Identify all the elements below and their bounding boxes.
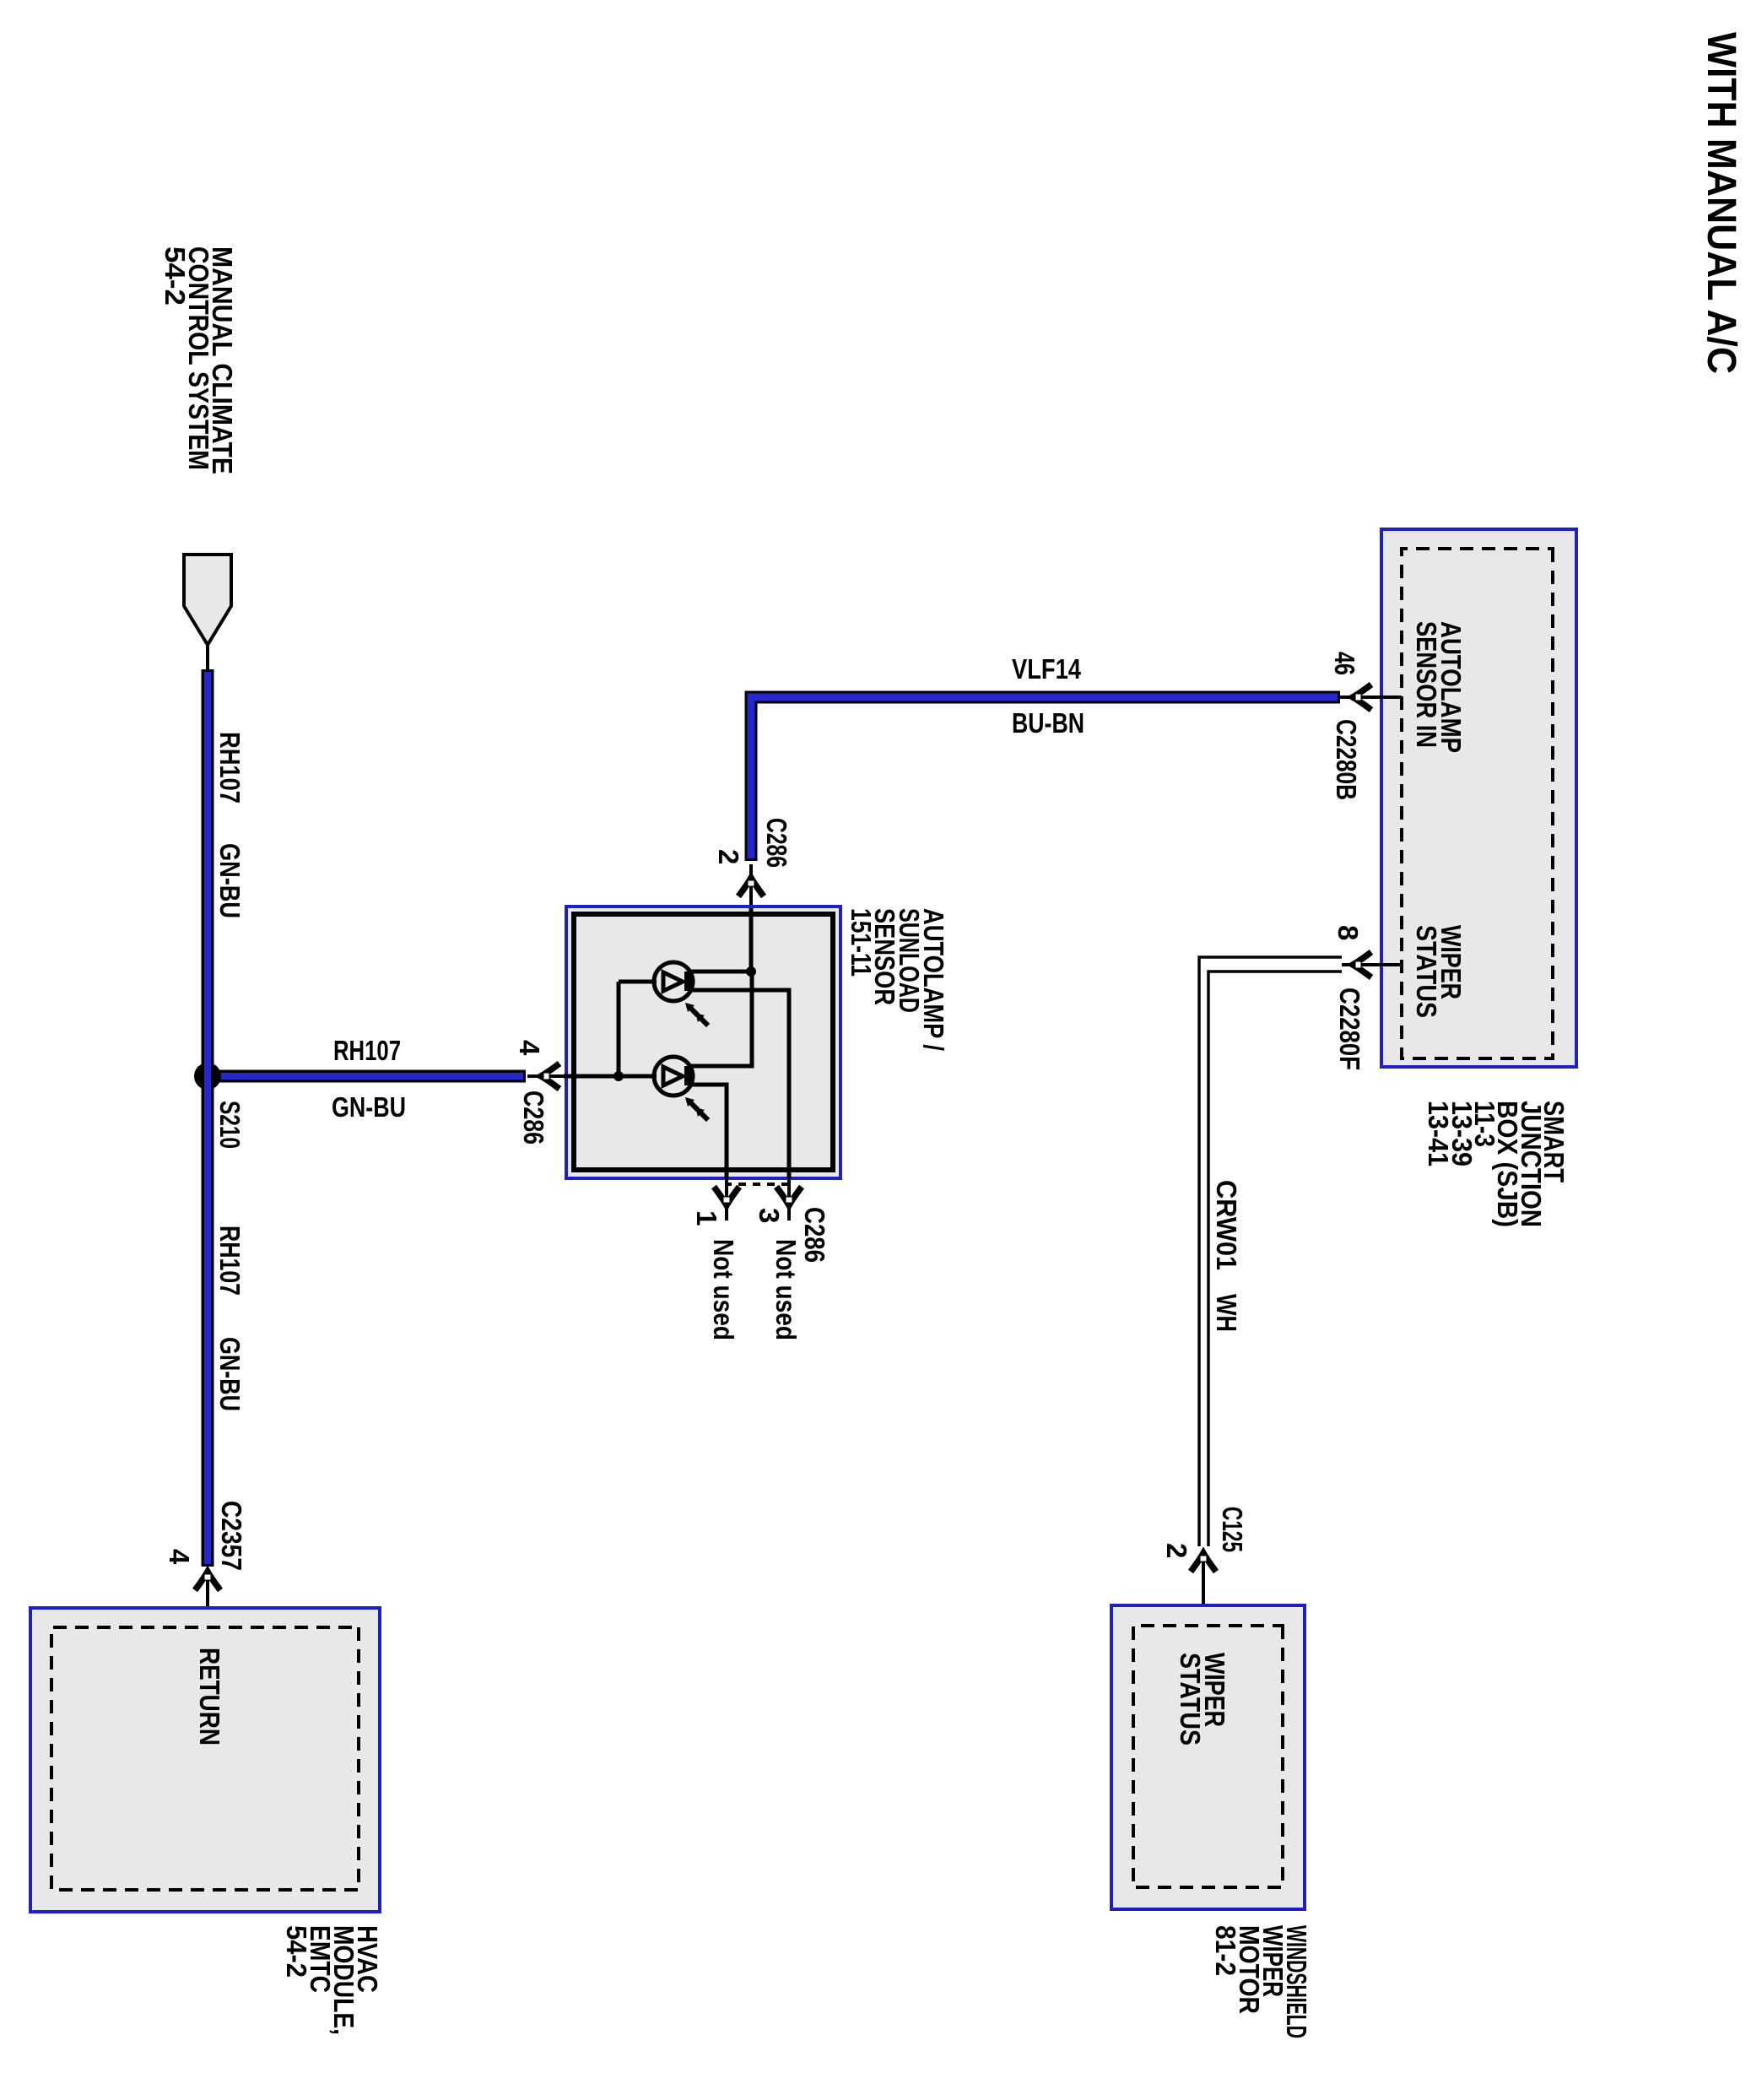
svg-text:C2280B: C2280B (1331, 719, 1362, 800)
svg-text:C125: C125 (1217, 1507, 1248, 1552)
svg-text:C2357: C2357 (216, 1501, 247, 1571)
destination label MANUAL CLIMATE CONTROL SYSTEM 54-2 (159, 246, 238, 474)
sensor name label AUTOLAMP / SUNLOAD SENSOR 151-11 (846, 908, 949, 1051)
pin 3 connector arrow (776, 1187, 802, 1205)
svg-text:Not used: Not used (708, 1239, 739, 1340)
wire stub into HVAC module (206, 1575, 209, 1629)
svg-text:2: 2 (1161, 1543, 1192, 1558)
connector C125 arrow (1191, 1553, 1216, 1572)
svg-text:13-41: 13-41 (1423, 1101, 1454, 1166)
svg-text:54-2: 54-2 (281, 1925, 312, 1978)
windshield wiper motor box (1111, 1605, 1305, 1909)
pin 4 connector arrow (sensor) (541, 1064, 559, 1089)
junction node (anode rail / pin4) (613, 1071, 624, 1081)
wire: LED1 cathode-right to pin3 (690, 990, 789, 1178)
HVAC inner dashed outline (51, 1627, 359, 1890)
wiper motor inner dashed outline (1133, 1626, 1283, 1887)
HVAC module box (30, 1608, 380, 1912)
svg-text:RH107: RH107 (333, 1035, 401, 1066)
svg-text:C2280F: C2280F (1334, 988, 1365, 1070)
autolamp/sunload sensor box (566, 907, 840, 1178)
svg-text:4: 4 (164, 1549, 195, 1565)
svg-text:RH107: RH107 (214, 1226, 246, 1296)
SJB label WIPER STATUS (1411, 925, 1467, 1018)
svg-text:C286: C286 (761, 818, 792, 868)
pin 8 stub wire (1342, 963, 1402, 966)
pin 3 stub outside (787, 1178, 791, 1220)
svg-text:CRW01: CRW01 (1211, 1180, 1242, 1270)
svg-text:GN-BU: GN-BU (332, 1091, 406, 1123)
svg-text:C286: C286 (799, 1207, 830, 1263)
wire: LED2 cathode-right to pin1 (690, 1085, 727, 1178)
svg-text:GN-BU: GN-BU (214, 1337, 246, 1411)
svg-text:SENSOR IN: SENSOR IN (1411, 621, 1442, 748)
SJB inner dashed outline (1402, 549, 1553, 1058)
svg-text:151-11: 151-11 (846, 908, 877, 977)
lead from pentagon (206, 643, 209, 671)
svg-text:1: 1 (691, 1210, 722, 1226)
wiper motor name label WINDSHIELD WIPER MOTOR 81-2 (1210, 1925, 1312, 2038)
SJB label AUTOLAMP SENSOR IN (1411, 621, 1467, 753)
pin 1 stub outside (725, 1178, 728, 1220)
svg-text:Not used: Not used (770, 1239, 802, 1340)
pin 2 stub into sensor (749, 864, 753, 908)
svg-text:WH: WH (1211, 1294, 1242, 1332)
photodiode D1 (654, 962, 708, 1026)
wire CRW01 WH (white wire, double line) (1199, 957, 1342, 1546)
wire: LED2 cathode-left to pin2 node (690, 972, 752, 1066)
wire stub into wiper motor (1202, 1556, 1205, 1626)
svg-text:RH107: RH107 (214, 732, 246, 804)
svg-text:BU-BN: BU-BN (1012, 707, 1084, 739)
off-page connector pentagon (184, 555, 231, 645)
junction node (pin2 rail) (746, 966, 756, 977)
pin 46 stub wire (1340, 695, 1402, 699)
svg-text:46: 46 (1329, 652, 1360, 675)
svg-text:S210: S210 (214, 1101, 246, 1149)
wiper motor label WIPER STATUS (1175, 1653, 1230, 1745)
svg-text:STATUS: STATUS (1411, 925, 1442, 1018)
wire: anode rail (617, 982, 621, 1076)
internal wire: pin2 rail (749, 908, 754, 972)
svg-text:2: 2 (713, 849, 744, 864)
svg-text:RETURN: RETURN (194, 1648, 225, 1745)
dashed connector link C286 pins 1-3 (727, 1183, 789, 1186)
svg-text:4: 4 (514, 1040, 545, 1056)
wire: pin4 line down out of box (564, 1074, 619, 1079)
wire VLF14 BU-BN (thick blue) (751, 697, 1340, 861)
svg-text:STATUS: STATUS (1175, 1653, 1206, 1745)
pin 1 connector arrow (714, 1187, 739, 1205)
HVAC name label HVAC MODULE, EMTC 54-2 (281, 1925, 383, 2035)
pin 8 connector arrow (1353, 952, 1371, 977)
wire: LED1 cathode-left to pin2 node (690, 970, 751, 974)
svg-text:54-2: 54-2 (159, 246, 191, 306)
pin 46 connector arrow (1353, 685, 1371, 710)
wire: LED1 anode down (619, 980, 657, 984)
svg-text:GN-BU: GN-BU (214, 843, 246, 918)
svg-text:8: 8 (1332, 925, 1364, 940)
splice S210 (194, 1063, 221, 1090)
photodiode D2 (654, 1057, 708, 1120)
svg-text:3: 3 (754, 1208, 785, 1223)
smart junction box SJB (1381, 529, 1576, 1067)
svg-text:C286: C286 (518, 1091, 549, 1145)
pin 2 connector arrow (sunload sensor) (738, 878, 764, 896)
sensor inner black outline (574, 914, 833, 1170)
svg-text:81-2: 81-2 (1210, 1925, 1241, 1976)
SJB name label SMART JUNCTION BOX (SJB) 11-3 13-39 13-41 (1423, 1101, 1570, 1227)
connector C2357 arrow (195, 1572, 220, 1590)
wire: LED2 anode down (619, 1074, 657, 1079)
wire RH107 GN-BU trunk (thick blue) (202, 669, 214, 1567)
wire RH107 GN-BU branch (thick blue) (208, 1070, 526, 1083)
svg-text:WITH MANUAL A/C: WITH MANUAL A/C (1699, 32, 1743, 374)
svg-text:VLF14: VLF14 (1012, 653, 1082, 685)
